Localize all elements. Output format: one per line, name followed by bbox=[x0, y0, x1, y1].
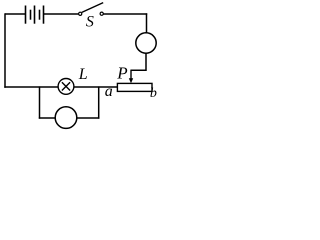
wire voltmeter branch left horizontal bbox=[39, 117, 56, 119]
battery B1 plate long 3 bbox=[43, 6, 45, 24]
wire switch to top-right corner bbox=[103, 13, 147, 15]
voltmeter V1 (meter circle) bbox=[55, 107, 77, 129]
wire ammeter to wiper corner bbox=[131, 53, 146, 70]
battery B1 plate short 2 bbox=[39, 10, 41, 20]
rheostat P wiper arrow shaft bbox=[130, 70, 132, 80]
svg-text:L: L bbox=[78, 66, 88, 83]
wire battery to switch bbox=[44, 13, 79, 15]
wire voltmeter branch left vertical bbox=[39, 86, 41, 118]
wire voltmeter right horizontal bbox=[77, 117, 100, 119]
switch S left contact bbox=[79, 12, 82, 15]
switch S right contact bbox=[100, 12, 103, 15]
wire bottom-left horizontal to lamp bbox=[4, 86, 58, 88]
lamp L circle bbox=[58, 79, 74, 95]
battery B1 plate short 1 bbox=[30, 10, 32, 20]
svg-text:S: S bbox=[86, 14, 94, 31]
wire lamp to rheostat terminal a bbox=[74, 86, 118, 88]
rheostat P body (box) bbox=[117, 83, 152, 91]
ammeter A1 (meter circle) bbox=[136, 33, 156, 53]
svg-text:a: a bbox=[105, 83, 113, 100]
wire voltmeter branch right vertical bbox=[98, 86, 100, 118]
svg-text:b: b bbox=[150, 86, 157, 101]
wire top-left horizontal from left rail to battery bbox=[5, 13, 25, 15]
wire right vertical down to ammeter bbox=[146, 13, 148, 33]
wire left vertical rail bbox=[4, 13, 6, 88]
switch S blade (open) bbox=[82, 3, 103, 13]
lamp L cross stroke 2 bbox=[62, 82, 70, 90]
lamp L cross stroke 1 bbox=[62, 82, 70, 90]
svg-text:P: P bbox=[116, 64, 127, 83]
battery B1 plate long 2 bbox=[34, 6, 36, 24]
battery B1 plate long 1 bbox=[25, 6, 27, 24]
rheostat P wiper arrowhead bbox=[129, 78, 133, 83]
